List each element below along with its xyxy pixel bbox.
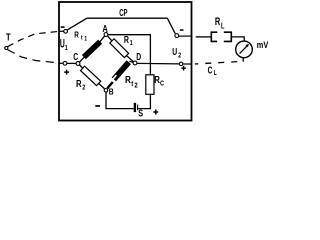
battery S thin plate [137,105,139,111]
wire node B down to bottom rail [106,92,134,108]
svg-text:mV: mV [257,40,269,50]
svg-text:C: C [208,64,213,76]
label minus (U2) [180,29,184,31]
svg-text:B: B [109,87,114,97]
node T (thermocouple junction) [5,46,8,49]
svg-text:C: C [73,51,78,63]
wire box to RL [196,36,212,38]
resistor RL (open brackets) [211,32,217,41]
resistor RC (open, vertical) [146,75,154,95]
svg-text:R: R [76,78,82,89]
svg-text:U: U [172,46,177,58]
svg-text:R: R [125,74,131,85]
meter needle [240,46,248,54]
svg-text:R: R [124,34,129,45]
wire terminal to node C [67,62,76,64]
wire RL to meter [231,37,244,41]
terminal U2 plus [179,62,183,66]
wire node A horizontal to RC branch [108,35,150,75]
svg-text:2: 2 [82,84,85,92]
svg-text:CP: CP [119,6,128,18]
wire battery to RC branch [138,94,150,108]
label minus (U1) [61,26,65,28]
wire U1 minus terminal to U2 minus terminal [67,18,175,33]
resistor Rt1 (thermoresistor, filled) [80,57,85,62]
label plus (U2) [181,66,186,71]
wire dashed return line CL [195,61,243,64]
wire dashed lower lead from T to box [8,50,59,63]
svg-text:D: D [136,50,141,62]
svg-text:C: C [160,80,164,88]
wire node D to terminal U2 plus [137,62,179,65]
terminal U1 plus [59,62,63,64]
node C [76,62,80,66]
wire meter bottom stub [242,58,244,62]
resistor R2 (open) [80,65,83,68]
label plus (U1) [64,70,69,75]
svg-text:T: T [6,31,11,42]
terminal U2 minus [175,34,179,38]
svg-text:A: A [102,23,108,34]
wire dashed upper lead from T to box [8,31,59,46]
resistor R1 (open) [108,36,113,41]
node D [133,61,137,65]
svg-text:2: 2 [178,52,181,60]
meter mV [236,41,253,58]
box CP [59,2,192,121]
svg-text:R: R [215,14,221,27]
label minus (battery S) [95,105,100,107]
svg-text:R: R [74,30,79,40]
terminal U1 minus [59,30,64,32]
svg-text:2: 2 [134,82,138,90]
node A [104,33,108,37]
svg-text:L: L [221,23,224,31]
svg-text:1: 1 [65,44,68,52]
battery S thick plate [134,103,136,112]
svg-text:L: L [214,69,217,77]
resistor Rt2 (thermoresistor, filled, with slash) [107,82,113,88]
node B [104,89,108,93]
label plus (battery S) [153,110,158,115]
svg-text:t: t [81,35,83,42]
svg-text:1: 1 [130,39,133,47]
